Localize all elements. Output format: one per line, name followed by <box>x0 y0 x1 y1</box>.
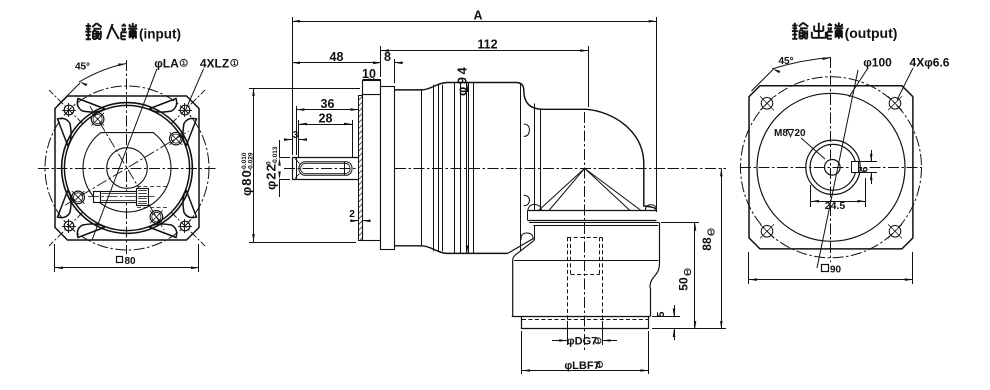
svg-text:10: 10 <box>362 67 376 81</box>
svg-text:88: 88 <box>700 237 714 251</box>
svg-text:φLA: φLA <box>154 57 179 71</box>
svg-text:4XLZ: 4XLZ <box>200 57 229 71</box>
svg-text:(output): (output) <box>845 25 898 41</box>
svg-text:90: 90 <box>830 265 842 276</box>
svg-text:-0.029: -0.029 <box>248 152 255 171</box>
svg-text:1: 1 <box>686 269 690 276</box>
svg-text:112: 112 <box>477 38 497 52</box>
svg-text:45°: 45° <box>75 62 90 73</box>
svg-text:24.5: 24.5 <box>825 200 846 212</box>
svg-text:1: 1 <box>233 60 237 67</box>
svg-text:A: A <box>473 9 482 23</box>
svg-text:48: 48 <box>330 50 344 64</box>
svg-text:50: 50 <box>677 277 691 291</box>
svg-text:28: 28 <box>319 112 333 126</box>
svg-text:3: 3 <box>293 130 299 141</box>
svg-text:φ80: φ80 <box>239 169 254 196</box>
svg-text:5: 5 <box>655 311 667 317</box>
svg-text:1: 1 <box>596 338 600 345</box>
svg-text:20: 20 <box>795 128 807 139</box>
svg-text:1: 1 <box>598 362 602 369</box>
svg-text:φ100: φ100 <box>863 56 892 70</box>
svg-text:1: 1 <box>709 229 713 236</box>
svg-text:45°: 45° <box>778 56 793 67</box>
svg-text:2: 2 <box>349 209 355 220</box>
svg-text:φDG7: φDG7 <box>567 336 598 348</box>
svg-text:36: 36 <box>321 97 335 111</box>
svg-text:-0.013: -0.013 <box>272 146 279 165</box>
svg-text:6: 6 <box>859 166 871 172</box>
svg-text:80: 80 <box>124 256 136 267</box>
svg-text:(input): (input) <box>139 27 181 42</box>
svg-text:φ22: φ22 <box>264 163 279 190</box>
svg-text:M8: M8 <box>774 128 788 139</box>
svg-text:φ94: φ94 <box>455 65 470 96</box>
svg-text:1: 1 <box>182 60 186 67</box>
svg-text:8: 8 <box>384 50 391 64</box>
svg-text:φLBF7: φLBF7 <box>564 360 599 372</box>
svg-text:4Xφ6.6: 4Xφ6.6 <box>910 56 950 70</box>
